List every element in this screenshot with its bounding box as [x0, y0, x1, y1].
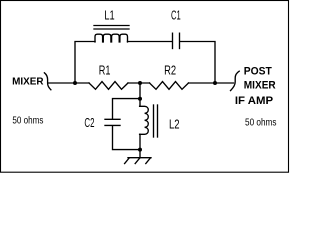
- svg-text:C1: C1: [171, 9, 181, 23]
- svg-text:MIXER: MIXER: [12, 76, 44, 88]
- L1 core lines: [94, 25, 129, 27]
- wire: middle node down to C2/L2 node: [139, 83, 141, 99]
- wire: L1 to C1: [128, 41, 173, 43]
- border frame (decorative): [1, 1, 289, 173]
- left connector (MIXER jack): [44, 73, 51, 90]
- node: right junction: [213, 81, 217, 85]
- wire: node to C2 top: [113, 99, 141, 119]
- wire: R1 to R2 through middle node: [128, 82, 150, 84]
- wire: MIXER lead to left junction: [48, 82, 89, 84]
- wire: C2 bottom to ground bus: [113, 126, 141, 150]
- node: left junction: [73, 81, 77, 85]
- svg-text:MIXER: MIXER: [244, 80, 276, 92]
- svg-text:R2: R2: [164, 63, 176, 77]
- node: middle junction: [138, 81, 142, 85]
- resistor R2: [150, 82, 189, 90]
- svg-text:POST: POST: [244, 65, 272, 77]
- svg-text:IF AMP: IF AMP: [235, 95, 274, 107]
- wire: node into L2: [139, 99, 141, 106]
- node: bottom junction: [138, 148, 142, 152]
- wire: C1 to right riser, down to main wire: [180, 42, 215, 84]
- inductor L1: [95, 34, 128, 42]
- right connector (POST MIXER jack): [231, 71, 240, 90]
- wire: bottom junction to ground: [139, 150, 141, 158]
- svg-text:L1: L1: [104, 9, 114, 23]
- capacitor C1: [172, 33, 174, 48]
- wire: L2 to bottom junction: [139, 134, 141, 149]
- node: C2/L2 top junction: [138, 97, 142, 101]
- svg-text:50 ohms: 50 ohms: [12, 115, 43, 127]
- svg-text:R1: R1: [99, 63, 111, 77]
- svg-text:L2: L2: [169, 118, 180, 132]
- wire: left riser to top branch: [75, 42, 95, 84]
- wire: R2 to right connector: [189, 82, 234, 84]
- inductor L2: [140, 106, 149, 134]
- svg-text:C2: C2: [84, 116, 94, 130]
- L2 core lines: [153, 105, 155, 137]
- ground: [128, 157, 151, 159]
- svg-text:50 ohms: 50 ohms: [245, 116, 277, 128]
- resistor R1: [89, 82, 128, 90]
- capacitor C2: [105, 118, 120, 120]
